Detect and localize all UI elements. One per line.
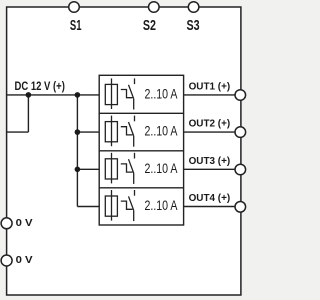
junction dot C: [75, 129, 81, 135]
wire DC 12V feed row 1: [7, 94, 100, 96]
svg-text:2..10 A: 2..10 A: [145, 160, 179, 176]
svg-text:2..10 A: 2..10 A: [145, 123, 179, 139]
terminal OUT3: [235, 164, 246, 175]
junction dot A: [26, 92, 32, 98]
svg-text:0 V: 0 V: [16, 218, 33, 229]
breaker channel 1 symbol: [105, 78, 134, 109]
terminal S2: [149, 2, 160, 13]
terminal OUT1: [235, 90, 246, 101]
terminal OUT4: [235, 202, 246, 213]
breaker channel 3 symbol: [105, 153, 134, 184]
breaker channel 4 symbol: [105, 190, 134, 221]
terminal S3: [188, 2, 199, 13]
svg-text:2..10 A: 2..10 A: [145, 86, 179, 102]
svg-text:OUT4 (+): OUT4 (+): [189, 193, 231, 204]
terminal 0V upper: [1, 218, 12, 229]
svg-text:DC 12 V (+): DC 12 V (+): [15, 79, 65, 93]
wire OUT3: [184, 168, 241, 170]
channel box outline: [99, 75, 183, 225]
wire OUT4: [184, 206, 241, 208]
wire branch row 2: [77, 131, 99, 133]
wire OUT2: [184, 131, 241, 133]
breaker channel 2 symbol: [105, 116, 134, 147]
svg-text:0 V: 0 V: [16, 255, 33, 266]
wire branch row 3: [77, 168, 99, 170]
terminal OUT2: [235, 127, 246, 138]
svg-text:S2: S2: [143, 17, 156, 34]
channel divider 3: [99, 187, 183, 189]
wire branch row 4: [77, 206, 99, 208]
svg-text:OUT3 (+): OUT3 (+): [189, 156, 231, 167]
svg-text:2..10 A: 2..10 A: [145, 197, 179, 213]
junction dot B: [75, 92, 81, 98]
channel divider 1: [99, 112, 183, 114]
wire stub vertical: [27, 95, 29, 132]
svg-text:S3: S3: [187, 17, 200, 34]
wire vertical bus: [76, 95, 78, 207]
terminal S1: [69, 2, 80, 13]
junction dot D: [75, 167, 81, 173]
wire OUT1: [184, 94, 241, 96]
module border frame: [7, 7, 241, 295]
terminal 0V lower: [1, 255, 12, 266]
channel divider 2: [99, 150, 183, 152]
wire stub horizontal to left border: [7, 131, 29, 133]
module body background: [7, 7, 241, 295]
svg-text:OUT2 (+): OUT2 (+): [189, 119, 231, 130]
svg-text:OUT1 (+): OUT1 (+): [189, 82, 231, 93]
svg-text:S1: S1: [70, 17, 82, 34]
